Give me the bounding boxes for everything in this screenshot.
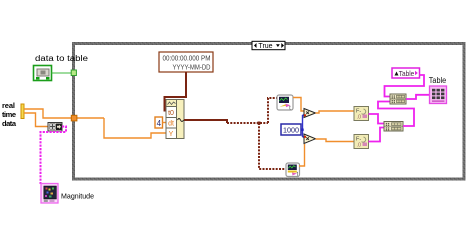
svg-text:True: True (258, 43, 272, 50)
svg-text:t0: t0 (168, 110, 174, 117)
wire: blue 1000 to both multiplies (301, 115, 304, 137)
wire: magenta NTS1 to Build Array 2 (369, 114, 385, 124)
svg-text:time: time (2, 110, 16, 119)
svg-text:.0: .0 (357, 115, 362, 121)
wire: boolean green to tunnel (52, 72, 73, 74)
Build Waveform node (166, 100, 184, 139)
wire: magenta NTS2 to Build Array 2 (369, 128, 385, 142)
Build Array 2 (384, 122, 403, 132)
svg-text:YYYY-MM-DD: YYYY-MM-DD (173, 63, 211, 72)
wire: 4 to dt (163, 122, 167, 124)
svg-text:Table: Table (429, 76, 447, 85)
wire: waveform (brown) Build Waveform output, branch to both Get Waveform Components (184, 120, 227, 123)
wire: orange from terminal to tunnel and Build Waveform Y (24, 109, 166, 138)
multiply function 1 (304, 109, 316, 118)
local variable Table (392, 68, 420, 78)
numeric constant 4 (155, 117, 163, 128)
wire: timestamp (dark brown) to Build Waveform t0 (165, 72, 187, 111)
Number To Fractional String 1 (354, 107, 369, 121)
wire: orange multiply2 to NumberToString 2 (316, 139, 355, 142)
svg-text:00:00:00.000 PM: 00:00:00.000 PM (163, 54, 211, 63)
svg-text:Y: Y (169, 131, 174, 138)
svg-text:4: 4 (157, 119, 162, 128)
wire: magenta local variable to Build Array 1 upper input (385, 75, 425, 97)
svg-text:data: data (2, 119, 17, 128)
case structure border (74, 44, 465, 180)
tunnel (orange) on left border (71, 115, 77, 121)
svg-text:.0: .0 (357, 143, 362, 149)
terminal bar (real time data) (21, 104, 24, 119)
label "real time data" (2, 101, 17, 128)
timestamp constant (159, 52, 213, 72)
svg-text:real: real (2, 101, 15, 110)
Build Array 1 (390, 94, 406, 104)
wire: magenta Build Array 2 out to Build Array 1 lower input (378, 102, 414, 127)
Get Waveform Components (bottom) (286, 163, 300, 178)
svg-text:Table: Table (399, 69, 415, 78)
svg-text:Magnitude: Magnitude (61, 192, 94, 201)
wire: magenta Build Array 1 to Table indicator (406, 95, 430, 99)
wire: orange multiply1 to NumberToString 1 (316, 111, 355, 113)
boolean control terminal (data to table) (34, 66, 52, 81)
junction blue (301, 129, 303, 131)
junction on waveform wire (258, 122, 261, 125)
Number To Fractional String 2 (354, 135, 369, 149)
wire: orange bottom GetWfm up to multiply 2 (299, 144, 305, 166)
tunnel (green, boolean) on left border (71, 70, 76, 76)
Magnitude express VI (41, 184, 58, 204)
Table indicator terminal (430, 86, 447, 104)
multiply function 2 (304, 134, 316, 144)
Index Array node (48, 123, 62, 132)
svg-text:data to table: data to table (35, 54, 89, 63)
wire: orange top GetWfm to multiply 1 (293, 98, 304, 112)
case selector label "True" (252, 41, 285, 50)
wire: orange branch to Index Array (24, 113, 48, 127)
numeric constant 1000 (281, 124, 301, 135)
svg-text:dt: dt (168, 121, 174, 128)
Get Waveform Components (top) (277, 95, 293, 112)
svg-text:1000: 1000 (283, 126, 299, 135)
wire: cluster (dashed magenta) Index Array to Magnitude (41, 127, 67, 185)
